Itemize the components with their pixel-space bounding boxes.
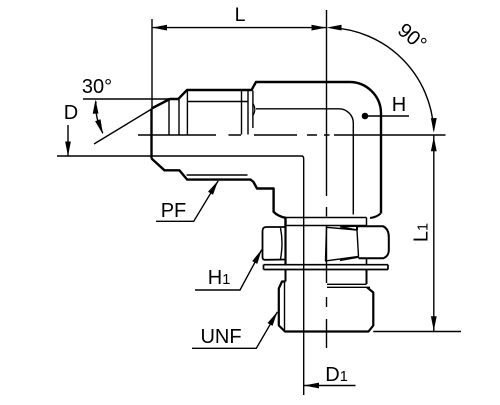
vertical centerline / L extension bbox=[326, 10, 328, 348]
horizontal centerline bbox=[138, 134, 446, 136]
svg-text:L: L bbox=[235, 4, 246, 26]
svg-text:PF: PF bbox=[161, 200, 187, 222]
30 degree reference line bbox=[83, 98, 169, 100]
H1 shelf bbox=[195, 250, 262, 290]
hex bottom chamfer curve right bbox=[370, 214, 381, 219]
90 arc arrow top bbox=[327, 25, 342, 31]
L arrow left bbox=[152, 25, 167, 31]
nut H1 left sliver bbox=[263, 227, 287, 260]
L arrow right bbox=[312, 25, 327, 31]
nut right face bbox=[357, 226, 389, 258]
PF shelf bbox=[156, 181, 218, 222]
washer bbox=[264, 265, 389, 270]
UNF thread minor line left bbox=[284, 282, 286, 332]
H1 arrow bbox=[252, 249, 262, 264]
thread root line top bbox=[188, 101, 248, 103]
30 degree slant line bbox=[94, 99, 169, 145]
svg-text:UNF: UNF bbox=[200, 326, 241, 348]
nut stem thick edge left bbox=[284, 226, 286, 265]
PF arrow bbox=[208, 181, 218, 195]
L1 dimension line bbox=[433, 135, 435, 332]
elbow outer silhouette bottom bbox=[152, 159, 286, 227]
collar band below hex bbox=[286, 218, 367, 226]
90 degree arc bbox=[331, 28, 434, 130]
hex face edge vertical left bbox=[252, 91, 254, 129]
30 arc with arrows bbox=[96, 102, 103, 134]
body face edge top line and arc bbox=[256, 109, 353, 215]
H leader line bbox=[365, 115, 409, 117]
90 arc arrow bottom bbox=[431, 118, 437, 133]
nut right face top edge bbox=[340, 225, 357, 228]
UNF thread shoulder double lines right bbox=[327, 284, 370, 287]
thread end verticals left bbox=[169, 91, 187, 135]
nut center face bbox=[326, 227, 359, 261]
D extension / face edge bottom line into inner corner bbox=[57, 156, 304, 395]
stem below washer bbox=[286, 270, 367, 285]
thread end verticals right bbox=[242, 91, 249, 135]
svg-text:D: D bbox=[64, 102, 78, 124]
UNF thread outline left bbox=[279, 282, 374, 332]
UNF shelf bbox=[192, 312, 278, 349]
thread root line bottom bbox=[187, 174, 248, 176]
UNF arrow bbox=[268, 312, 278, 326]
D1 dimension line bbox=[304, 385, 356, 387]
nut bottom chamfer slant bbox=[340, 257, 359, 260]
svg-text:H: H bbox=[392, 94, 406, 116]
nut top chamfer slant bbox=[340, 227, 357, 230]
stem verticals between nut and washer bbox=[286, 259, 367, 265]
H leader dot bbox=[362, 113, 369, 120]
tip face bbox=[150, 109, 152, 159]
D arrow line bbox=[67, 125, 69, 156]
nut left sliver chamfer curve bbox=[281, 228, 283, 259]
L1 bottom extension line bbox=[373, 331, 461, 333]
dimension L line bbox=[152, 27, 327, 29]
svg-text:30°: 30° bbox=[82, 76, 112, 98]
dimension L extension line left bbox=[151, 19, 153, 108]
elbow outer silhouette top bbox=[152, 82, 382, 214]
